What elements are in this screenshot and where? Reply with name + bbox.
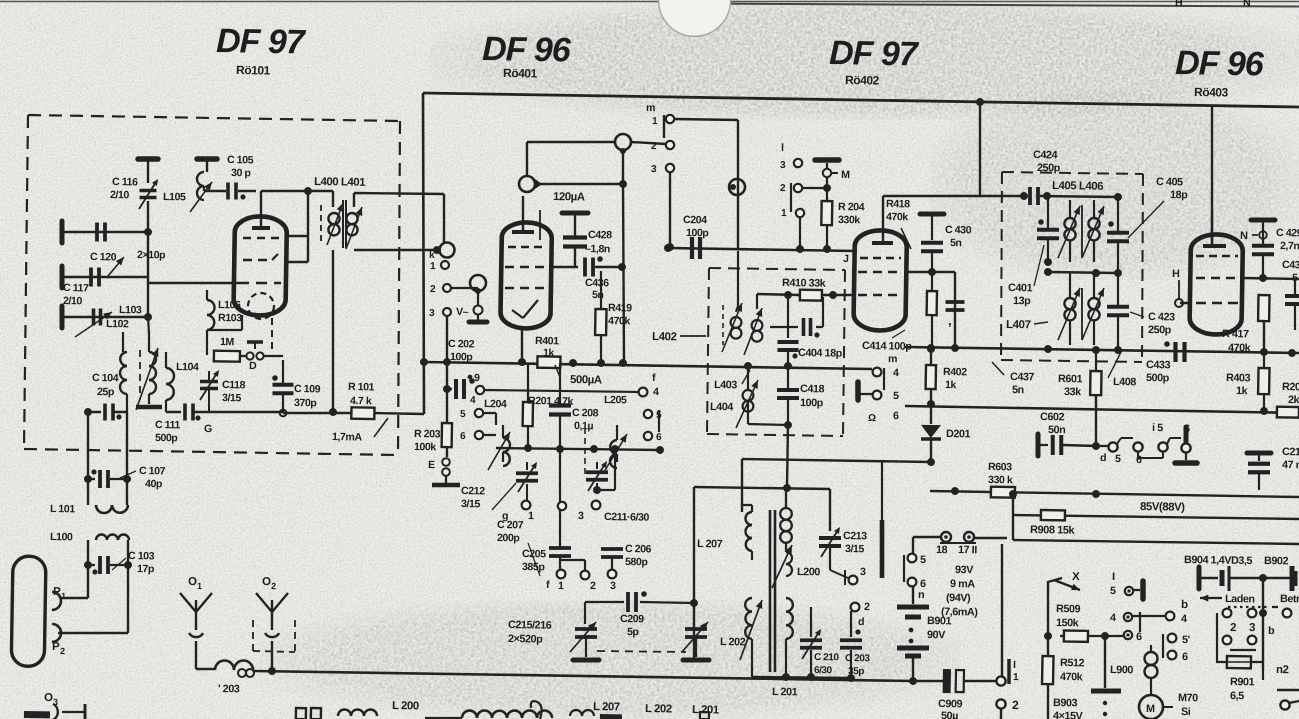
wire C103 row xyxy=(88,564,128,565)
terminal L205-5 xyxy=(644,410,662,421)
svg-text:D201: D201 xyxy=(946,428,971,440)
tube Rö402 g3 dashes xyxy=(858,294,902,295)
label B904 1,4V D3,5 xyxy=(1184,554,1253,567)
svg-text:13p: 13p xyxy=(1013,295,1031,307)
terminal 17 xyxy=(964,532,974,542)
svg-text:J: J xyxy=(843,253,849,265)
tube Rö403 xyxy=(1189,234,1243,335)
switch lever m xyxy=(662,115,665,138)
svg-text:470k: 470k xyxy=(1228,342,1252,354)
capacitor C109 xyxy=(272,360,294,413)
wire L401 top to k1 xyxy=(353,193,445,243)
label Laden arrow xyxy=(1200,593,1255,606)
trimmer C213 xyxy=(819,527,842,558)
svg-text:4: 4 xyxy=(893,367,899,379)
svg-text:R 203: R 203 xyxy=(414,428,441,440)
wire x931 from bus xyxy=(930,349,933,366)
label L403 xyxy=(714,379,737,391)
svg-text:B903: B903 xyxy=(1053,697,1078,709)
svg-text:4: 4 xyxy=(653,386,659,398)
label f below xyxy=(546,579,550,591)
svg-text:L405 L406: L405 L406 xyxy=(1052,180,1103,193)
terminal 6b sw xyxy=(1181,443,1190,452)
label C204 value 100p xyxy=(686,227,710,239)
wire bus A xyxy=(742,459,930,462)
wire m3 down xyxy=(669,172,671,247)
svg-text:5: 5 xyxy=(893,390,899,402)
svg-text:R908 15k: R908 15k xyxy=(1030,524,1076,537)
label C437 value 5n xyxy=(1012,384,1024,396)
label g xyxy=(502,510,508,522)
wire Rö403 anode up xyxy=(1210,106,1214,246)
junction x1096 R603bus xyxy=(1092,490,1100,498)
slash 1,7mA xyxy=(374,418,388,437)
bridge 6-6b xyxy=(1167,438,1181,444)
svg-text:250p: 250p xyxy=(1148,324,1172,336)
wire L100 frame left xyxy=(87,540,89,598)
trimmer C118 xyxy=(200,370,220,412)
svg-text:100p: 100p xyxy=(450,351,474,363)
svg-text:2/10: 2/10 xyxy=(63,295,83,307)
ground V xyxy=(469,315,487,322)
jack O3 xyxy=(24,703,85,719)
svg-text:' 203: ' 203 xyxy=(218,683,240,695)
svg-text:C436: C436 xyxy=(585,277,609,289)
svg-text:1M: 1M xyxy=(220,336,235,348)
svg-text:2,7n: 2,7n xyxy=(1280,240,1299,252)
inductor L205 xyxy=(604,417,648,472)
dashed gang link xyxy=(597,651,686,653)
label C433 value 500p xyxy=(1146,372,1170,384)
wire C418 below box xyxy=(786,425,789,486)
inductor L407b xyxy=(1082,273,1104,345)
wire to 6 xyxy=(1105,635,1124,638)
capacitor C414 xyxy=(945,272,965,310)
label (76mA) xyxy=(941,606,978,619)
capacitor C405 body xyxy=(1106,197,1129,272)
inductor L400 xyxy=(321,191,343,245)
svg-text:C 405: C 405 xyxy=(1156,176,1183,188)
capacitor C418 xyxy=(776,366,799,425)
label C430 xyxy=(945,224,972,236)
tube Rö401 xyxy=(500,222,552,329)
label g-1 xyxy=(528,510,534,522)
junction x955 R603bus xyxy=(951,487,959,495)
label k xyxy=(429,250,435,261)
label C436 xyxy=(585,277,609,289)
switch lever L205 xyxy=(658,410,661,432)
svg-text:50n: 50n xyxy=(1048,424,1065,436)
label C107 value 40p xyxy=(145,478,163,490)
capacitor C429 xyxy=(1250,220,1275,279)
junction node x615 xyxy=(611,445,619,453)
svg-text:5: 5 xyxy=(1115,453,1121,465)
tube Rö401 grid dashes xyxy=(505,266,549,267)
svg-text:L 201: L 201 xyxy=(692,704,720,716)
label R603 value 330k xyxy=(988,474,1013,486)
label R417 xyxy=(1222,328,1249,340)
label C203 value 35p xyxy=(848,666,864,677)
junction C405 top xyxy=(1114,193,1122,201)
label C405 value 18p xyxy=(1170,189,1188,201)
svg-text:L900: L900 xyxy=(1110,664,1133,676)
svg-text:3: 3 xyxy=(860,566,866,578)
label C209 xyxy=(620,613,644,625)
label m6 xyxy=(893,410,899,422)
tube Rö402 bottom arc xyxy=(868,321,897,324)
wire motor right xyxy=(1163,706,1173,708)
wire L204 terms xyxy=(483,413,497,435)
svg-text:C433: C433 xyxy=(1146,359,1171,371)
antenna O1 xyxy=(179,592,212,630)
label C105 value 30p xyxy=(231,167,252,179)
label 120µA xyxy=(553,191,585,204)
svg-text:R103: R103 xyxy=(218,312,242,324)
capacitor C206 xyxy=(601,449,625,569)
label C401 value 13p xyxy=(1013,295,1031,307)
svg-text:370p: 370p xyxy=(294,397,318,409)
wire L mid row xyxy=(694,487,830,489)
junction C202 xyxy=(443,385,451,393)
svg-text:R403: R403 xyxy=(1226,372,1251,384)
terminal 2b xyxy=(580,571,596,593)
label C118 xyxy=(222,379,246,391)
capacitor C602 xyxy=(1038,434,1097,457)
svg-text:R603: R603 xyxy=(988,461,1012,473)
terminal L204-5 xyxy=(460,409,483,421)
wire R410 to tube xyxy=(843,294,856,297)
label R901 xyxy=(1230,676,1255,688)
label R509 value 150k xyxy=(1056,617,1080,629)
wire C213 drop xyxy=(829,489,830,531)
svg-text:m: m xyxy=(888,353,897,365)
terminal g3a xyxy=(1223,636,1232,645)
battery B904 xyxy=(1199,565,1297,593)
svg-text:4×15V: 4×15V xyxy=(1053,710,1084,719)
leader C103 xyxy=(112,558,126,570)
junction det x955 xyxy=(951,344,959,352)
wire g2 row Rö402 xyxy=(907,271,955,273)
lever sw56 xyxy=(1162,634,1165,658)
meter bar xyxy=(539,210,542,240)
contact P2 xyxy=(52,624,61,642)
wire 18 left xyxy=(913,537,941,554)
label terminal G xyxy=(204,423,212,435)
svg-text:C204: C204 xyxy=(683,214,707,226)
label C111 value 500p xyxy=(155,432,179,444)
core L407 xyxy=(1081,288,1083,340)
junction R509 right xyxy=(1101,632,1109,640)
tube Rö101 anode xyxy=(252,191,271,228)
svg-text:50µ: 50µ xyxy=(941,710,958,719)
label C424 value 250p xyxy=(1037,162,1061,174)
junction R509 left xyxy=(1044,632,1052,640)
top cap circle x623 xyxy=(615,134,631,154)
label R512 value 470k xyxy=(1060,671,1084,683)
dashed box IF2 xyxy=(999,172,1145,363)
wire bus5 g1 xyxy=(668,248,856,251)
svg-text:C215/216: C215/216 xyxy=(508,619,552,632)
svg-text:6/30: 6/30 xyxy=(814,665,833,676)
bridge d-5 xyxy=(1117,438,1135,445)
label L407 xyxy=(1006,319,1048,332)
svg-text:n: n xyxy=(918,589,924,601)
label C909 value 50µ xyxy=(941,710,958,719)
junction R204 bus5 xyxy=(823,245,831,253)
wire L100 frame right xyxy=(127,540,130,633)
svg-text:V–: V– xyxy=(456,306,469,318)
label C210 value 6/30 xyxy=(814,665,833,676)
svg-text:2: 2 xyxy=(590,580,596,592)
terminal f4 right xyxy=(639,388,648,397)
junction x1290 det xyxy=(1288,349,1296,357)
supply bar 2 xyxy=(197,159,217,172)
inductor L203 xyxy=(215,660,254,677)
svg-text:DF 96: DF 96 xyxy=(482,30,572,69)
svg-text:90V: 90V xyxy=(927,629,946,641)
terminal 3d xyxy=(849,566,867,585)
label L100 xyxy=(50,531,73,543)
label E xyxy=(428,459,435,471)
capacitor C219 xyxy=(1246,413,1271,490)
label C203 xyxy=(845,653,870,664)
tube Rö403 g2 dashes xyxy=(1196,277,1238,278)
label O1 xyxy=(188,576,202,591)
svg-text:2: 2 xyxy=(1230,622,1236,634)
grid cap circle Rö401 xyxy=(519,176,535,192)
wire R103-D xyxy=(240,355,246,357)
terminal bar C117 upper xyxy=(59,266,65,288)
label 18 xyxy=(936,544,948,556)
svg-text:O: O xyxy=(188,576,197,588)
label C111 xyxy=(155,419,181,431)
svg-text:3: 3 xyxy=(610,580,616,592)
label C116 value 2/10 xyxy=(110,189,130,201)
core L400/L401 xyxy=(320,200,346,248)
terminal M xyxy=(823,163,851,181)
capacitor C401 body xyxy=(1036,197,1059,262)
junction C107 right xyxy=(123,475,131,483)
svg-text:b: b xyxy=(1181,599,1188,611)
junction C424 right xyxy=(1043,192,1051,200)
svg-text:C 120: C 120 xyxy=(90,251,117,263)
svg-text:17 II: 17 II xyxy=(958,544,977,556)
svg-text:Si: Si xyxy=(1181,706,1191,718)
terminal g3b xyxy=(1248,636,1257,645)
label L408 xyxy=(1113,376,1136,388)
ground 6b xyxy=(1175,452,1197,464)
inductor L402b xyxy=(744,308,763,356)
terminal bar C117 lower xyxy=(59,306,65,328)
wire C209 row xyxy=(585,601,694,604)
wire mixer node row xyxy=(496,447,660,450)
inductor bottom d xyxy=(570,710,622,719)
wire C117 lower row xyxy=(60,316,148,319)
label C207 value 200p xyxy=(497,532,521,544)
terminal k2 xyxy=(430,284,451,296)
label C120 value 2x10p xyxy=(137,249,166,261)
tube Rö101 grid2 dashes xyxy=(243,253,278,260)
punch hole xyxy=(658,0,731,37)
svg-text:5n: 5n xyxy=(950,237,962,249)
junction C117 xyxy=(144,313,152,321)
svg-text:C418: C418 xyxy=(800,383,825,395)
tube Rö101 xyxy=(233,216,287,316)
wire L400 return vertical xyxy=(330,250,335,412)
label C206 xyxy=(625,543,652,555)
label R509 xyxy=(1056,603,1081,615)
leader C107 xyxy=(120,471,136,479)
svg-text:1k: 1k xyxy=(1236,385,1249,397)
svg-text:C 207: C 207 xyxy=(497,519,524,531)
tube Rö403 grid dashes xyxy=(1196,255,1238,256)
label C428 value -1,8n xyxy=(585,243,610,255)
label L200 bottom xyxy=(392,700,419,712)
label C404 18p xyxy=(798,347,843,360)
slash L408 xyxy=(1108,350,1122,378)
inductor L404 xyxy=(736,366,758,429)
wire C211 node xyxy=(593,449,616,495)
wire R417 top xyxy=(1263,278,1265,290)
svg-text:580p: 580p xyxy=(625,556,649,568)
label C215/216 xyxy=(508,619,552,632)
inductor bottom b xyxy=(462,709,552,719)
terminal swb4 xyxy=(1165,599,1188,625)
svg-text:Rö401: Rö401 xyxy=(503,66,538,81)
grid cap circle Rö401 heater xyxy=(470,275,486,294)
resistor R419 xyxy=(595,271,607,363)
label R512 xyxy=(1060,657,1085,669)
svg-text:3/15: 3/15 xyxy=(222,392,242,404)
svg-text:C212: C212 xyxy=(461,485,485,497)
label R419 xyxy=(608,302,632,314)
svg-text:3/15: 3/15 xyxy=(461,498,481,510)
label f-1 xyxy=(558,580,564,592)
trimmer C212 xyxy=(516,462,539,500)
label L203 xyxy=(218,683,240,695)
svg-text:H: H xyxy=(1175,0,1182,9)
supply bar 1 xyxy=(138,159,158,183)
svg-text:–1,8n: –1,8n xyxy=(585,243,610,255)
wire l2 to M node xyxy=(802,187,826,190)
ferrite rod P1/P2 xyxy=(11,556,46,667)
label L204 xyxy=(484,398,507,410)
terminal sw5p xyxy=(1167,634,1190,647)
svg-text:DF 97: DF 97 xyxy=(216,22,307,61)
label C107 xyxy=(139,465,166,477)
svg-text:R419: R419 xyxy=(608,302,632,314)
tube Rö403 g3 dashes xyxy=(1180,302,1238,304)
capacitor C428 xyxy=(561,213,588,268)
svg-text:C205: C205 xyxy=(522,548,546,560)
label C117 value 2/10 xyxy=(63,295,83,307)
wire R410 row xyxy=(757,294,843,296)
capacitor C433 xyxy=(1164,341,1185,362)
label L104 xyxy=(176,361,199,373)
label k 1 xyxy=(430,261,436,272)
svg-text:B902: B902 xyxy=(1264,555,1289,567)
lever b5 xyxy=(902,555,905,582)
inductor L101 xyxy=(96,504,128,513)
wire C117 upper row xyxy=(59,276,148,317)
dashed box RF stage xyxy=(23,115,404,455)
wire sec row xyxy=(752,619,811,621)
svg-text:4: 4 xyxy=(1110,612,1116,624)
capacitor C104 xyxy=(105,403,122,420)
junction C430 g2 xyxy=(928,268,936,276)
junction C104 left xyxy=(84,408,92,416)
label R101 xyxy=(348,381,375,393)
label tube type DF97 (Rö402) xyxy=(829,34,920,73)
svg-text:18: 18 xyxy=(936,544,948,556)
wire anode Rö401 to C436 xyxy=(552,265,578,268)
jack pair bottom xyxy=(296,708,321,719)
junction C116/C120 xyxy=(144,228,152,236)
wire grid bus Rö401 xyxy=(536,183,623,186)
svg-text:5p: 5p xyxy=(627,626,640,638)
tube Rö101 grid dashes xyxy=(243,237,279,238)
ground L103 xyxy=(136,404,162,409)
junction l1 bus5 xyxy=(796,245,804,253)
wire main bottom xyxy=(254,670,913,681)
svg-text:330k: 330k xyxy=(838,214,861,226)
svg-text:470k: 470k xyxy=(608,315,631,327)
inductor L102 xyxy=(119,332,148,413)
resistor R203 xyxy=(441,390,452,457)
label L205 xyxy=(604,394,627,406)
label C401 xyxy=(1008,282,1033,294)
dashed box O2 xyxy=(252,619,295,652)
label L105 xyxy=(163,191,186,203)
wire R601 x1096 xyxy=(1095,273,1097,350)
svg-text:1,7mA: 1,7mA xyxy=(332,431,363,443)
label D xyxy=(249,360,257,372)
label C428 xyxy=(588,229,612,241)
label B901 value 90V xyxy=(927,629,946,641)
wire m1 to riser xyxy=(672,119,740,248)
wire 2b stem xyxy=(560,560,585,570)
label R203 value 100k xyxy=(414,441,437,453)
label C207 xyxy=(497,519,524,531)
svg-text:9: 9 xyxy=(474,372,480,384)
svg-text:L402: L402 xyxy=(652,331,677,343)
label R203 xyxy=(414,428,441,440)
junction mid x1048 xyxy=(1044,268,1052,276)
label C210 xyxy=(814,652,839,663)
terminal g1 xyxy=(522,501,531,510)
svg-text:C211·6/30: C211·6/30 xyxy=(604,511,650,524)
svg-text:93V: 93V xyxy=(955,564,974,576)
trimmer C211 xyxy=(586,461,609,492)
wire junction to L102 xyxy=(147,232,149,283)
svg-text:L204: L204 xyxy=(484,398,507,410)
label R202 value 2k xyxy=(1288,394,1299,406)
svg-text:C 116: C 116 xyxy=(112,176,138,188)
svg-text:C 104: C 104 xyxy=(92,372,119,384)
junction bus x601 xyxy=(597,359,605,367)
arrow X xyxy=(1048,571,1080,591)
svg-text:1k: 1k xyxy=(543,347,555,359)
label R601 value 33k xyxy=(1064,386,1082,398)
resistor R908 xyxy=(1041,510,1065,520)
label m xyxy=(646,102,655,114)
resistor R601 xyxy=(1089,350,1102,446)
label R410 33k xyxy=(782,277,827,290)
svg-text:330 k: 330 k xyxy=(988,474,1013,486)
label Rö101 xyxy=(236,63,271,78)
svg-text:C 206: C 206 xyxy=(625,543,652,555)
svg-text:120µA: 120µA xyxy=(553,191,585,204)
